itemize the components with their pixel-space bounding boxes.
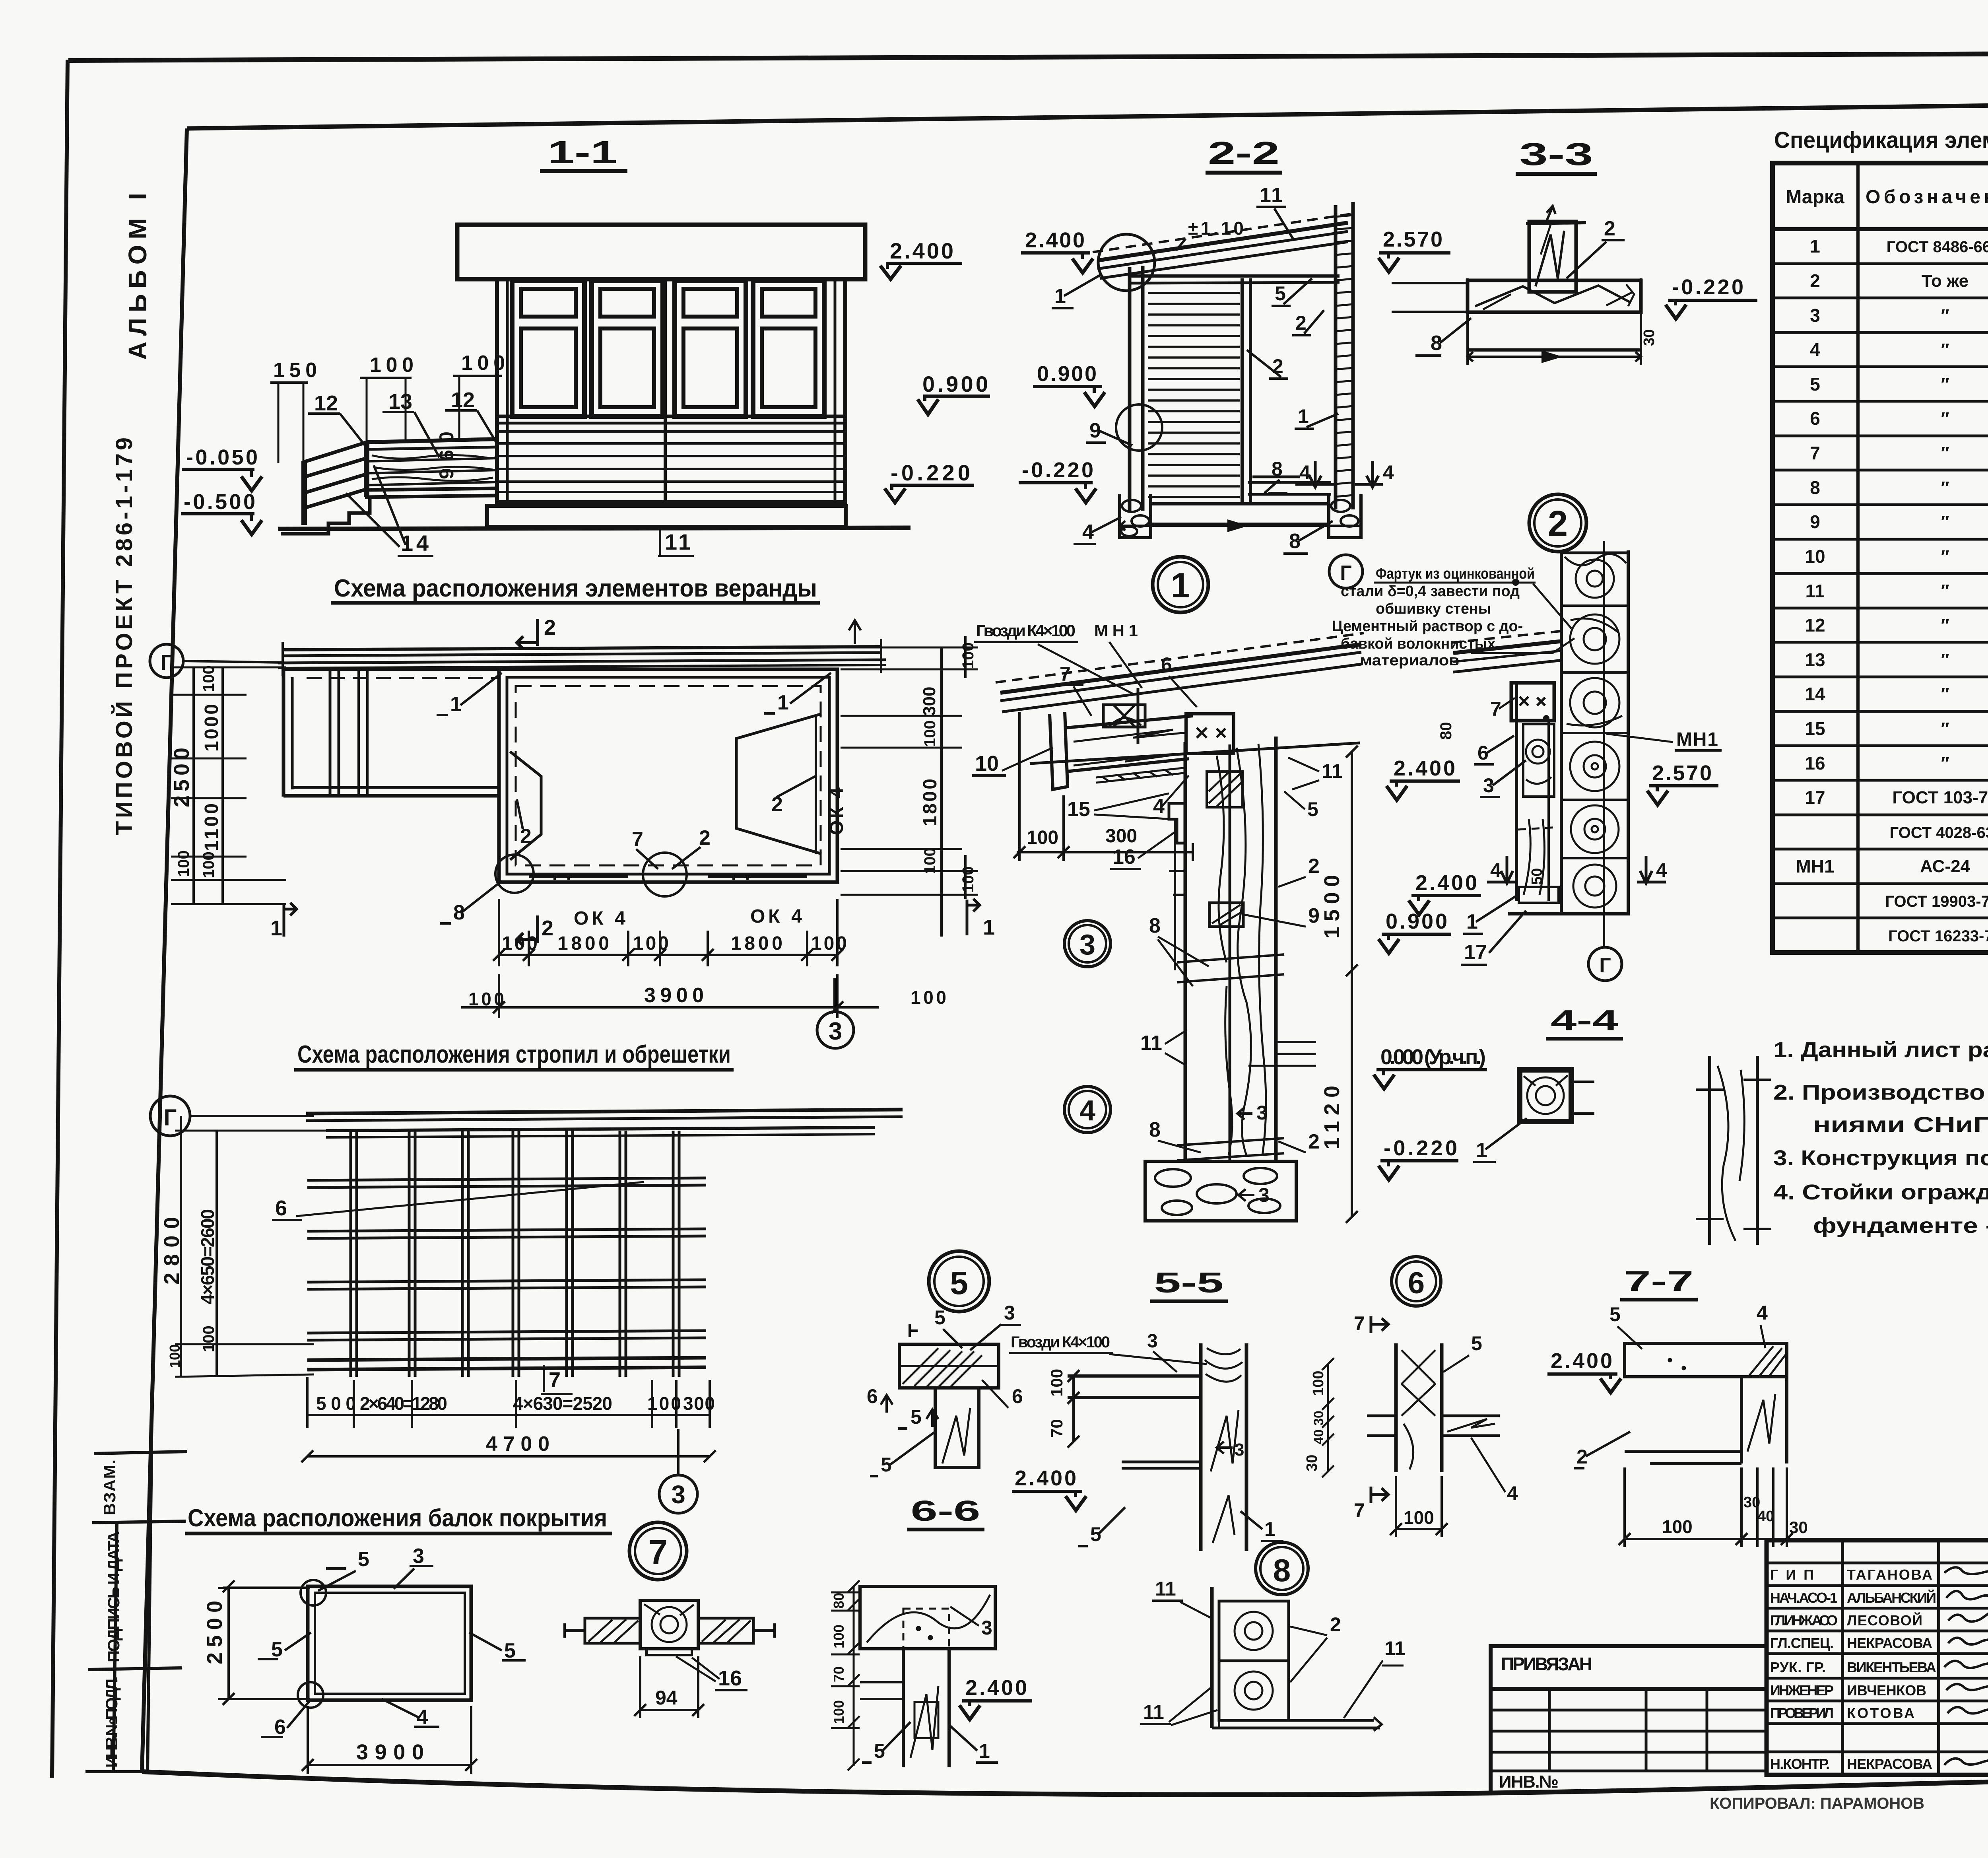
svg-text:5: 5 [881,1454,892,1476]
fartuk note text [1332,566,1535,669]
circled 6 [1392,1257,1441,1306]
svg-text:300: 300 [920,687,939,716]
plan section mark 1 bottom-right [967,899,980,935]
plan main room walls [499,669,837,882]
svg-text:1: 1 [1264,1518,1276,1540]
svg-text:5-5: 5-5 [1154,1267,1224,1299]
svg-text:1: 1 [979,1740,990,1762]
svg-text:5: 5 [504,1639,516,1662]
svg-text:3: 3 [1483,774,1494,797]
svg-text:Гвозди К4×100: Гвозди К4×100 [976,621,1076,640]
detail5 drawing [899,1344,999,1467]
2-2 foundation left [1120,494,1151,538]
svg-text:″: ″ [1941,650,1949,670]
svg-text:Спецификация элементов к сх: Спецификация элементов к схеме,расположе… [1774,127,1988,153]
svg-text:3: 3 [413,1545,424,1568]
detail horizontal floor lines [1276,1042,1316,1054]
stropila circled 7 (double) [629,1522,687,1580]
svg-text:″: ″ [1941,478,1949,498]
svg-text:2.400: 2.400 [965,1676,1027,1700]
svg-text:″: ″ [1941,375,1949,394]
1-1 labels 12 13 12 [314,388,475,415]
svg-text:100: 100 [1662,1516,1693,1537]
2-2 labels right side [1272,282,1309,480]
svg-text:ТИПОВОЙ ПРОЕКТ 286-1-179: ТИПОВОЙ ПРОЕКТ 286-1-179 [111,437,137,835]
svg-text:2: 2 [1295,312,1307,334]
svg-text:11: 11 [1143,1701,1164,1723]
svg-text:Г: Г [1599,954,1611,977]
svg-text:500: 500 [316,1393,356,1414]
svg-text:ВИКЕНТЬЕВА: ВИКЕНТЬЕВА [1847,1659,1936,1675]
1-1 sill band [497,415,845,418]
svg-text:Обозначение: Обозначение [1866,187,1988,208]
svg-text:70: 70 [831,1666,847,1682]
svg-text:100: 100 [1404,1507,1434,1528]
svg-text:100: 100 [1310,1371,1327,1396]
balki bottom dim 3900 [302,1706,477,1774]
detail foundation [1145,1161,1296,1221]
section 6 drawing [1367,1343,1500,1472]
inner frame top [187,98,1988,128]
stropila bottom beam [307,1358,706,1360]
plan bottom dim row 2: 3900 [461,974,879,1018]
svg-text:фундаменте - МН3 (см. лист АС: фундаменте - МН3 (см. лист АС-12). [1813,1214,1988,1238]
svg-text:±1.10: ±1.10 [1188,218,1244,239]
3-3 level flag -0.220 right [1666,275,1757,319]
detail roof slope lines [996,631,1565,712]
plan porch part [283,669,499,797]
svg-text:30: 30 [1641,329,1658,346]
detail circled 4 [1064,1086,1110,1133]
svg-text:обшивку стены: обшивку стены [1376,601,1491,617]
2-2 roof sloped band [1093,214,1351,278]
svg-text:100: 100 [811,933,847,954]
1-1 window unit 1 [512,281,584,416]
svg-text:-0.220: -0.220 [1672,275,1743,299]
svg-text:2: 2 [1308,855,1320,878]
svg-text:100: 100 [167,1344,183,1368]
svg-text:80: 80 [1437,722,1455,740]
svg-text:Г: Г [1340,562,1351,585]
2-2 bottom dim line [1120,521,1361,531]
svg-text:7: 7 [549,1368,561,1392]
svg-text:То же: То же [1922,271,1969,291]
detail 4-4 wall strip [1696,1056,1771,1245]
balki corner circles [301,1580,326,1605]
svg-text:7: 7 [648,1533,668,1571]
svg-text:1: 1 [1171,566,1190,605]
plan left dims [171,667,286,904]
detail right fragment: asbestos wall band [1508,541,1630,948]
svg-text:5: 5 [271,1638,283,1661]
svg-text:″: ″ [1941,547,1949,566]
svg-text:0.900: 0.900 [922,371,988,396]
svg-text:4×650=2600: 4×650=2600 [197,1209,218,1304]
svg-text:ЛЕСОВОЙ: ЛЕСОВОЙ [1847,1612,1922,1629]
detail dim 100 300 [1013,712,1193,861]
stropila top beam [306,1110,903,1137]
section 5-5 drawing [1068,1343,1246,1551]
svg-text:16: 16 [1805,753,1825,774]
svg-text:4: 4 [1656,859,1667,881]
svg-text:4: 4 [1299,461,1310,484]
svg-text:1: 1 [1298,405,1309,428]
detail16 post [640,1600,698,1655]
signature table frame [1767,1540,1988,1775]
2-2 top plate [1130,274,1340,278]
svg-text:7: 7 [632,828,643,851]
stropila bottom dim chain [307,1377,710,1428]
balki labels [271,1545,516,1739]
svg-text:″: ″ [1941,340,1949,360]
1-1 corner boards [506,279,509,502]
2-2 small circle window [1116,404,1162,451]
svg-text:ОК 4: ОК 4 [574,908,625,929]
svg-text:0.000 (Ур.ч.п.): 0.000 (Ур.ч.п.) [1380,1045,1486,1069]
svg-text:7: 7 [1060,663,1071,685]
svg-text:1: 1 [983,915,995,939]
svg-text:ПОДПИСЬ И ДАТА: ПОДПИСЬ И ДАТА [104,1531,123,1662]
svg-text:ИВЧЕНКОВ: ИВЧЕНКОВ [1847,1682,1926,1699]
plan section mark 2 bottom [517,915,538,946]
svg-text:″: ″ [1941,443,1949,463]
detail level flags right of wall [1386,756,1460,800]
2-2 mid post [1241,278,1244,505]
section 6-6 left dim chain [831,1580,860,1771]
svg-text:материалов: материалов [1360,652,1459,669]
svg-text:94: 94 [655,1687,678,1709]
circled 2 below 3-3 [1529,494,1586,552]
detail dim 1500 [1346,746,1358,976]
svg-text:80: 80 [831,1593,847,1609]
svg-text:300: 300 [1105,826,1137,847]
inner frame left [142,128,187,1772]
svg-text:2: 2 [1548,504,1568,544]
svg-text:ниями СНиП III-19-75 .: ниями СНиП III-19-75 . [1813,1113,1988,1137]
svg-text:100: 100 [959,866,977,893]
svg-text:-0.220: -0.220 [1022,458,1093,482]
svg-text:Г: Г [164,1105,177,1131]
svg-text:100: 100 [1027,827,1058,848]
svg-text:″: ″ [1941,409,1949,428]
svg-text:4: 4 [1507,1482,1518,1504]
svg-text:7-7: 7-7 [1624,1265,1694,1297]
svg-text:2.400: 2.400 [1394,756,1455,780]
svg-text:5: 5 [1275,282,1286,305]
svg-text:17: 17 [1464,941,1487,964]
svg-text:11: 11 [1140,1032,1162,1055]
detail nail plate block [1186,714,1234,754]
left margin stamp boxes [85,1452,187,1772]
spec table grid [1773,163,1988,952]
svg-text:″: ″ [1941,684,1949,704]
svg-text:стали δ=0,4 завести под: стали δ=0,4 завести под [1341,583,1520,600]
svg-text:-0.220: -0.220 [1384,1136,1457,1160]
detail circled 1 [1153,557,1208,612]
svg-text:10: 10 [975,752,999,775]
svg-text:2: 2 [1604,217,1615,240]
svg-text:7: 7 [1810,443,1820,463]
1-1 level flag -0.500 [181,490,262,534]
svg-text:6: 6 [1477,742,1489,764]
svg-text:НЕКРАСОВА: НЕКРАСОВА [1847,1635,1932,1651]
svg-text:12: 12 [1805,615,1825,636]
1-1 level flag 0.900 [918,371,990,414]
svg-text:МН1: МН1 [1676,729,1718,750]
svg-text:2. Производство работ вести: 2. Производство работ вести в соответств… [1773,1081,1988,1104]
svg-text:ПРИВЯЗАН: ПРИВЯЗАН [1501,1654,1592,1674]
1-1 porch stair rails [303,442,367,508]
svg-text:ПРОВЕРИЛ: ПРОВЕРИЛ [1770,1705,1834,1721]
svg-text:2-2: 2-2 [1208,135,1279,171]
svg-text:5: 5 [1810,374,1820,395]
2-2 bottom beam [1151,502,1329,505]
detail wall break marks [1177,954,1284,982]
svg-text:ГЛ.СПЕЦ.: ГЛ.СПЕЦ. [1770,1635,1834,1651]
svg-text:7: 7 [1354,1499,1365,1522]
svg-text:4: 4 [1757,1302,1768,1324]
svg-text:НАЧ.АСО-1: НАЧ.АСО-1 [1770,1590,1838,1606]
plan labels with leaders [450,691,789,924]
svg-text:3: 3 [1147,1331,1158,1352]
svg-text:15: 15 [1067,798,1090,821]
svg-text:10: 10 [1805,546,1825,567]
detail МН1 nail plate block [1511,683,1554,721]
1-1 center pier [664,281,667,502]
svg-text:0.900: 0.900 [1386,910,1447,933]
svg-text:8: 8 [1810,477,1820,498]
detail window sill piece [1169,803,1185,970]
svg-text:2.400: 2.400 [1551,1349,1612,1373]
svg-text:″: ″ [1941,754,1949,773]
svg-text:ГОСТ 103-76: ГОСТ 103-76 [1892,788,1988,807]
svg-text:100: 100 [921,847,939,874]
svg-text:5: 5 [950,1265,968,1301]
plan window trapezoid left [510,752,541,860]
svg-text:КОПИРОВАЛ: ПАРАМОНОВ: КОПИРОВАЛ: ПАРАМОНОВ [1710,1795,1924,1812]
svg-text:2: 2 [699,826,711,849]
svg-text:13: 13 [1805,649,1825,670]
svg-text:6: 6 [1012,1385,1023,1407]
svg-text:6: 6 [1810,408,1820,429]
svg-text:2.400: 2.400 [1025,228,1085,252]
svg-text:МН1: МН1 [1094,621,1138,640]
svg-text:″: ″ [1941,719,1949,739]
section 6 labels [1371,1316,1388,1333]
svg-text:2: 2 [1810,270,1820,291]
detail batten X-box [1103,688,1145,744]
svg-text:100: 100 [200,665,217,692]
svg-text:3-3: 3-3 [1520,136,1593,172]
section 6 left dims [1322,1358,1334,1477]
svg-text:40: 40 [1757,1508,1774,1525]
1-1 ground line [278,528,911,529]
svg-text:17: 17 [1805,787,1825,808]
svg-text:Н.КОНТР.: Н.КОНТР. [1770,1756,1830,1772]
circled 5 [929,1251,989,1312]
svg-text:1: 1 [270,916,282,940]
svg-text:9: 9 [1810,511,1820,532]
detail eaves beams [1066,716,1193,783]
2-2 level flag -0.220 [1019,458,1096,503]
svg-text:100: 100 [200,1325,217,1352]
detail16 wings [565,1618,775,1643]
inner frame bottom (wavy scan) [142,1772,1988,1795]
svg-text:5: 5 [1307,798,1318,820]
svg-text:4. Стойки ограждения крепить: 4. Стойки ограждения крепить к закладном… [1773,1180,1988,1204]
svg-text:100: 100 [921,720,939,747]
svg-text:КОТОВА: КОТОВА [1847,1705,1914,1721]
signature squiggles [1944,1567,1988,1765]
detail circled Г bottom [1588,947,1622,981]
svg-text:100: 100 [633,933,669,954]
lower-left mini table [1491,1689,1767,1792]
svg-text:4-4: 4-4 [1551,1005,1618,1036]
1-1 plinth [487,506,846,527]
svg-text:16: 16 [1112,845,1136,869]
svg-text:1: 1 [1810,236,1820,257]
2-2 level flag 0.900 [1033,362,1105,406]
1-1 level flag -0.050 [182,445,262,491]
svg-text:2: 2 [544,616,556,639]
1-1 window unit 4 [753,281,824,416]
svg-text:3: 3 [1004,1302,1015,1324]
svg-text:11: 11 [1155,1578,1176,1600]
outer border top [68,52,1988,60]
svg-text:ВЗАМ.: ВЗАМ. [100,1460,119,1515]
svg-text:16: 16 [718,1666,742,1690]
svg-text:Схема расположения балок по: Схема расположения балок покрытия [188,1504,607,1532]
3-3 bottom dim line [1468,278,1641,365]
svg-text:100: 100 [468,989,504,1009]
svg-text:1. Данный лист рассматривать: 1. Данный лист рассматривать совместно с… [1773,1038,1988,1062]
svg-text:ИНЖЕНЕР: ИНЖЕНЕР [1770,1682,1834,1699]
svg-text:6: 6 [867,1385,878,1407]
svg-text:3: 3 [1258,1184,1270,1206]
1-1 level flag 2.400 [880,238,962,279]
svg-text:100: 100 [831,1700,847,1724]
detail dim 1120 [1346,970,1358,1223]
svg-text:МН1: МН1 [1796,856,1834,877]
detail circled 3 [1064,921,1110,967]
1-1 wall body [497,279,845,502]
svg-text:5: 5 [1609,1303,1621,1325]
svg-text:7: 7 [1354,1312,1365,1335]
circled 8 [1256,1542,1308,1595]
svg-text:12: 12 [314,391,338,415]
svg-text:30: 30 [1304,1455,1320,1471]
svg-text:3: 3 [1256,1102,1268,1124]
svg-text:ТАГАНОВА: ТАГАНОВА [1847,1566,1932,1583]
svg-text:ИНВ.№ПОДЛ.: ИНВ.№ПОДЛ. [102,1676,121,1768]
stropila grid circle Г [150,1096,314,1136]
1-1 porch posts [301,461,307,525]
signature table texts [1770,1566,1988,1772]
1-1 roof slab [457,225,865,279]
svg-text:13: 13 [388,390,412,414]
svg-text:3: 3 [981,1617,992,1639]
svg-text:Марка: Марка [1786,187,1844,208]
svg-text:4×630=2520: 4×630=2520 [513,1393,612,1414]
svg-text:11: 11 [1322,760,1343,782]
plan detail circles on bottom wall [495,855,534,893]
svg-text:100: 100 [831,1625,847,1648]
svg-text:6-6: 6-6 [911,1495,980,1527]
plan right dims [841,636,978,937]
svg-text:ОК 4: ОК 4 [750,906,802,927]
plan grid circle Г [150,644,283,678]
1-1 porch dim 150 [270,359,317,463]
svg-text:8: 8 [1272,458,1283,480]
svg-text:40: 40 [1311,1429,1326,1444]
1-1 siding boards [499,431,844,492]
stropila left dims [175,1116,330,1377]
1-1 window unit 3 [675,281,746,416]
2-2 eaves detail circle [1098,234,1155,291]
svg-text:960: 960 [435,431,458,479]
svg-text:Гвозди К4×100: Гвозди К4×100 [1011,1333,1110,1351]
svg-text:100: 100 [1047,1369,1066,1397]
2-2 foundation right [1329,494,1361,538]
svg-text:ОК 4: ОК 4 [826,787,847,835]
svg-text:0.900: 0.900 [1037,362,1097,386]
1-1 porch fence grain [372,455,496,481]
svg-text:8: 8 [1431,332,1442,355]
2-2 siding boards left half [1148,293,1240,497]
svg-text:100: 100 [911,987,946,1008]
svg-text:8: 8 [1273,1553,1291,1588]
balki rectangle [308,1586,471,1700]
svg-text:АС-24: АС-24 [1920,857,1971,876]
svg-text:2.570: 2.570 [1652,761,1712,785]
detail eaves board 10 [1050,712,1068,789]
notes text block [1773,1038,1988,1238]
svg-text:100: 100 [959,642,977,669]
svg-text:Цементный раствор с до-: Цементный раствор с до- [1332,618,1523,635]
detail8 drawing [1212,1587,1382,1731]
svg-text:″: ″ [1941,306,1949,325]
svg-text:НЕКРАСОВА: НЕКРАСОВА [1847,1756,1932,1772]
svg-text:4: 4 [417,1706,428,1729]
svg-text:15: 15 [1805,718,1825,739]
plan section mark 1 bottom-left [284,903,297,937]
svg-text:ИНВ.№: ИНВ.№ [1499,1772,1559,1792]
svg-text:8: 8 [1149,914,1161,937]
svg-text:14: 14 [1805,684,1825,704]
2-2 left wall post [1128,267,1132,511]
svg-text:6: 6 [274,1716,286,1739]
svg-text:2.570: 2.570 [1383,227,1442,251]
stropila horizontal boards [307,1178,706,1340]
3-3 beam [1392,280,1641,350]
outer border left [52,60,68,1778]
plan section mark 2 top [517,619,538,649]
svg-text:2.400: 2.400 [890,238,953,263]
svg-text:3: 3 [671,1480,685,1509]
svg-text:100: 100 [200,851,217,878]
svg-text:2: 2 [1330,1613,1341,1636]
2-2 level flag 2.400 [1021,228,1093,273]
svg-text:Г: Г [161,651,173,674]
plan window trapezoid right [736,714,821,854]
svg-text:1: 1 [1476,1139,1487,1162]
plan top right tick [849,620,861,644]
svg-text:150: 150 [273,359,317,382]
stropila verticals (rafters) [351,1131,679,1377]
svg-text:100: 100 [461,352,505,375]
svg-text:11: 11 [1806,581,1825,601]
svg-text:2×640=1280: 2×640=1280 [360,1393,447,1414]
